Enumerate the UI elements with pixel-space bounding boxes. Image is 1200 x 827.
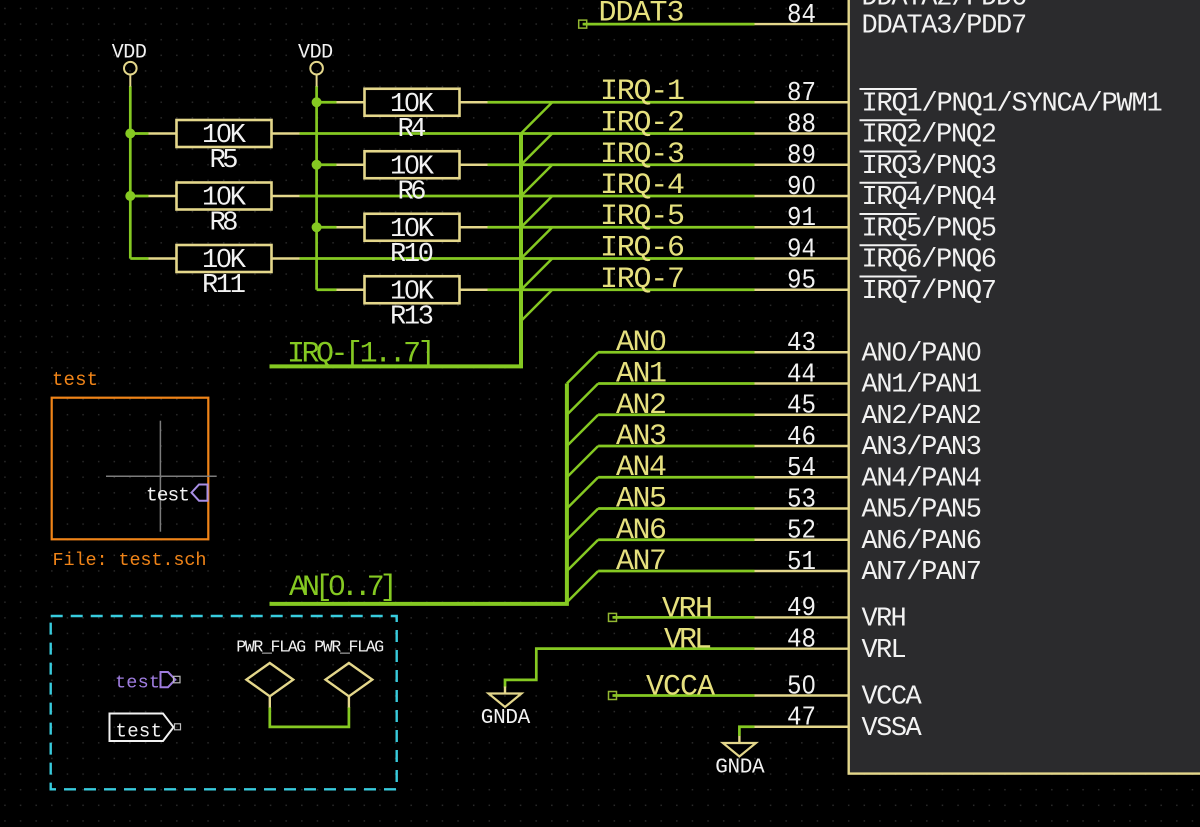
svg-text:AN5/PAN5: AN5/PAN5 [862,496,983,526]
svg-text:IRQ3/PNQ3: IRQ3/PNQ3 [862,152,998,182]
svg-text:AN6: AN6 [616,514,667,548]
svg-text:48: 48 [787,625,816,655]
svg-text:IRQ7/PNQ7: IRQ7/PNQ7 [862,277,998,307]
svg-text:AN1: AN1 [616,358,667,392]
svg-text:PWR_FLAG: PWR_FLAG [236,638,306,657]
svg-text:AN4/PAN4: AN4/PAN4 [862,464,983,494]
svg-text:DDAT3: DDAT3 [599,0,685,30]
svg-text:R6: R6 [398,177,427,207]
svg-text:49: 49 [787,594,816,624]
svg-text:test: test [52,369,98,391]
svg-text:VDD: VDD [298,42,333,65]
svg-text:89: 89 [787,142,816,172]
svg-text:VRH: VRH [662,592,713,626]
svg-text:AN0/PAN0: AN0/PAN0 [862,339,983,369]
svg-text:AN3/PAN3: AN3/PAN3 [862,433,983,463]
svg-text:43: 43 [787,329,816,359]
svg-text:AN2: AN2 [616,389,667,423]
svg-text:File: test.sch: File: test.sch [53,550,207,571]
svg-text:IRQ6/PNQ6: IRQ6/PNQ6 [862,246,998,276]
svg-text:DDATA3/PDD7: DDATA3/PDD7 [862,11,1028,41]
svg-text:54: 54 [787,454,816,484]
svg-text:53: 53 [787,485,816,515]
svg-text:R11: R11 [202,271,246,301]
svg-text:IRQ1/PNQ1/SYNCA/PWM1: IRQ1/PNQ1/SYNCA/PWM1 [862,90,1163,120]
svg-text:GNDA: GNDA [715,757,765,780]
svg-text:VDD: VDD [112,42,147,65]
svg-text:AN5: AN5 [616,483,667,517]
svg-text:95: 95 [787,267,816,297]
svg-text:45: 45 [787,392,816,422]
svg-text:47: 47 [787,704,816,734]
svg-text:AN3: AN3 [616,420,667,454]
svg-text:IRQ-7: IRQ-7 [600,263,685,297]
svg-text:VRL: VRL [664,624,712,658]
svg-text:IRQ-6: IRQ-6 [600,232,685,266]
svg-text:IRQ-[1..7]: IRQ-[1..7] [287,338,436,372]
svg-text:87: 87 [787,79,816,109]
svg-text:52: 52 [787,517,816,547]
svg-text:IRQ4/PNQ4: IRQ4/PNQ4 [862,183,998,213]
svg-text:91: 91 [787,204,816,234]
svg-text:IRQ2/PNQ2: IRQ2/PNQ2 [862,121,998,151]
svg-text:R13: R13 [390,302,434,332]
svg-text:test: test [146,485,190,507]
svg-text:IRQ5/PNQ5: IRQ5/PNQ5 [862,214,998,244]
svg-text:AN1/PAN1: AN1/PAN1 [862,371,983,401]
svg-text:IRQ-4: IRQ-4 [600,169,685,203]
svg-text:test: test [116,721,163,743]
svg-text:50: 50 [787,672,816,702]
svg-text:IRQ-3: IRQ-3 [600,138,685,172]
svg-text:IRQ-5: IRQ-5 [600,200,685,234]
svg-text:88: 88 [787,110,816,140]
svg-text:VRL: VRL [862,636,907,666]
svg-text:84: 84 [787,1,816,31]
svg-text:PWR_FLAG: PWR_FLAG [314,638,384,657]
svg-text:46: 46 [787,423,816,453]
svg-text:IRQ-2: IRQ-2 [600,107,685,141]
svg-text:51: 51 [787,548,816,578]
svg-text:VCCA: VCCA [862,683,923,713]
svg-text:VCCA: VCCA [646,670,715,704]
svg-text:90: 90 [787,173,816,203]
svg-text:R10: R10 [390,240,434,270]
svg-text:44: 44 [787,360,816,390]
svg-text:AN2/PAN2: AN2/PAN2 [862,402,983,432]
svg-text:AN6/PAN6: AN6/PAN6 [862,527,983,557]
svg-text:R4: R4 [398,115,427,145]
svg-text:VSSA: VSSA [862,714,923,744]
svg-text:AN4: AN4 [616,451,667,485]
svg-text:AN7/PAN7: AN7/PAN7 [862,558,983,588]
svg-text:VRH: VRH [862,605,907,635]
svg-text:AN7: AN7 [616,545,667,579]
svg-text:R8: R8 [210,209,239,239]
svg-text:GNDA: GNDA [481,707,531,730]
svg-text:test: test [115,673,160,694]
svg-text:IRQ-1: IRQ-1 [600,75,685,109]
svg-text:AN[0..7]: AN[0..7] [289,571,398,605]
svg-text:94: 94 [787,235,816,265]
svg-text:R5: R5 [210,146,239,176]
